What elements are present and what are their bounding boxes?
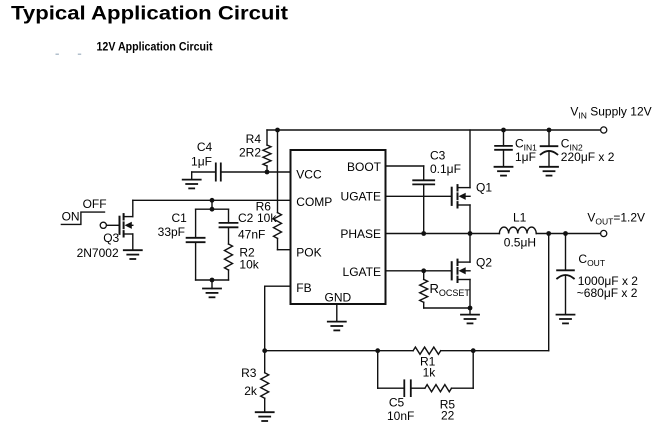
svg-text:Q2: Q2 [476, 256, 492, 270]
svg-text:10k: 10k [239, 258, 259, 272]
svg-text:VOUT=1.2V: VOUT=1.2V [587, 211, 645, 227]
svg-text:BOOT: BOOT [347, 160, 382, 174]
svg-text:33pF: 33pF [158, 225, 185, 239]
svg-text:1k: 1k [423, 365, 437, 379]
svg-text:C1: C1 [171, 211, 187, 225]
svg-text:1μF: 1μF [191, 155, 212, 169]
svg-text:LGATE: LGATE [343, 265, 381, 279]
svg-text:22: 22 [441, 409, 455, 423]
svg-text:VCC: VCC [296, 167, 322, 181]
svg-text:PHASE: PHASE [340, 227, 381, 241]
svg-text:C5: C5 [389, 396, 405, 410]
svg-text:Q1: Q1 [476, 181, 492, 195]
svg-text:C2: C2 [238, 211, 254, 225]
svg-text:~680μF x 2: ~680μF x 2 [577, 286, 638, 300]
svg-text:COUT: COUT [578, 252, 605, 268]
svg-text:10k: 10k [257, 211, 277, 225]
svg-text:2N7002: 2N7002 [77, 246, 119, 260]
svg-text:L1: L1 [513, 211, 527, 225]
svg-text:2R2: 2R2 [239, 146, 261, 160]
svg-text:COMP: COMP [296, 195, 332, 209]
svg-text:ROCSET: ROCSET [430, 281, 471, 298]
svg-text:GND: GND [325, 291, 352, 305]
svg-text:0.5μH: 0.5μH [504, 236, 536, 250]
svg-text:2k: 2k [244, 384, 258, 398]
svg-text:POK: POK [296, 246, 321, 260]
svg-text:FB: FB [296, 281, 311, 295]
svg-text:VIN Supply 12V: VIN Supply 12V [570, 105, 651, 121]
svg-text:Typical Application Circuit: Typical Application Circuit [11, 3, 289, 25]
svg-text:47nF: 47nF [238, 228, 265, 242]
svg-text:UGATE: UGATE [341, 189, 381, 203]
svg-text:Q3: Q3 [103, 231, 119, 245]
svg-text:OFF: OFF [83, 197, 107, 211]
svg-text:0.1μF: 0.1μF [430, 162, 461, 176]
svg-text:ON: ON [62, 210, 80, 224]
svg-text:1μF: 1μF [515, 150, 536, 164]
svg-text:R3: R3 [241, 366, 257, 380]
svg-text:R4: R4 [246, 132, 262, 146]
svg-text:C4: C4 [197, 140, 213, 154]
svg-text:220μF x 2: 220μF x 2 [561, 150, 615, 164]
svg-text:12V Application Circuit: 12V Application Circuit [97, 41, 213, 54]
svg-text:C3: C3 [430, 149, 446, 163]
svg-text:10nF: 10nF [387, 409, 414, 423]
